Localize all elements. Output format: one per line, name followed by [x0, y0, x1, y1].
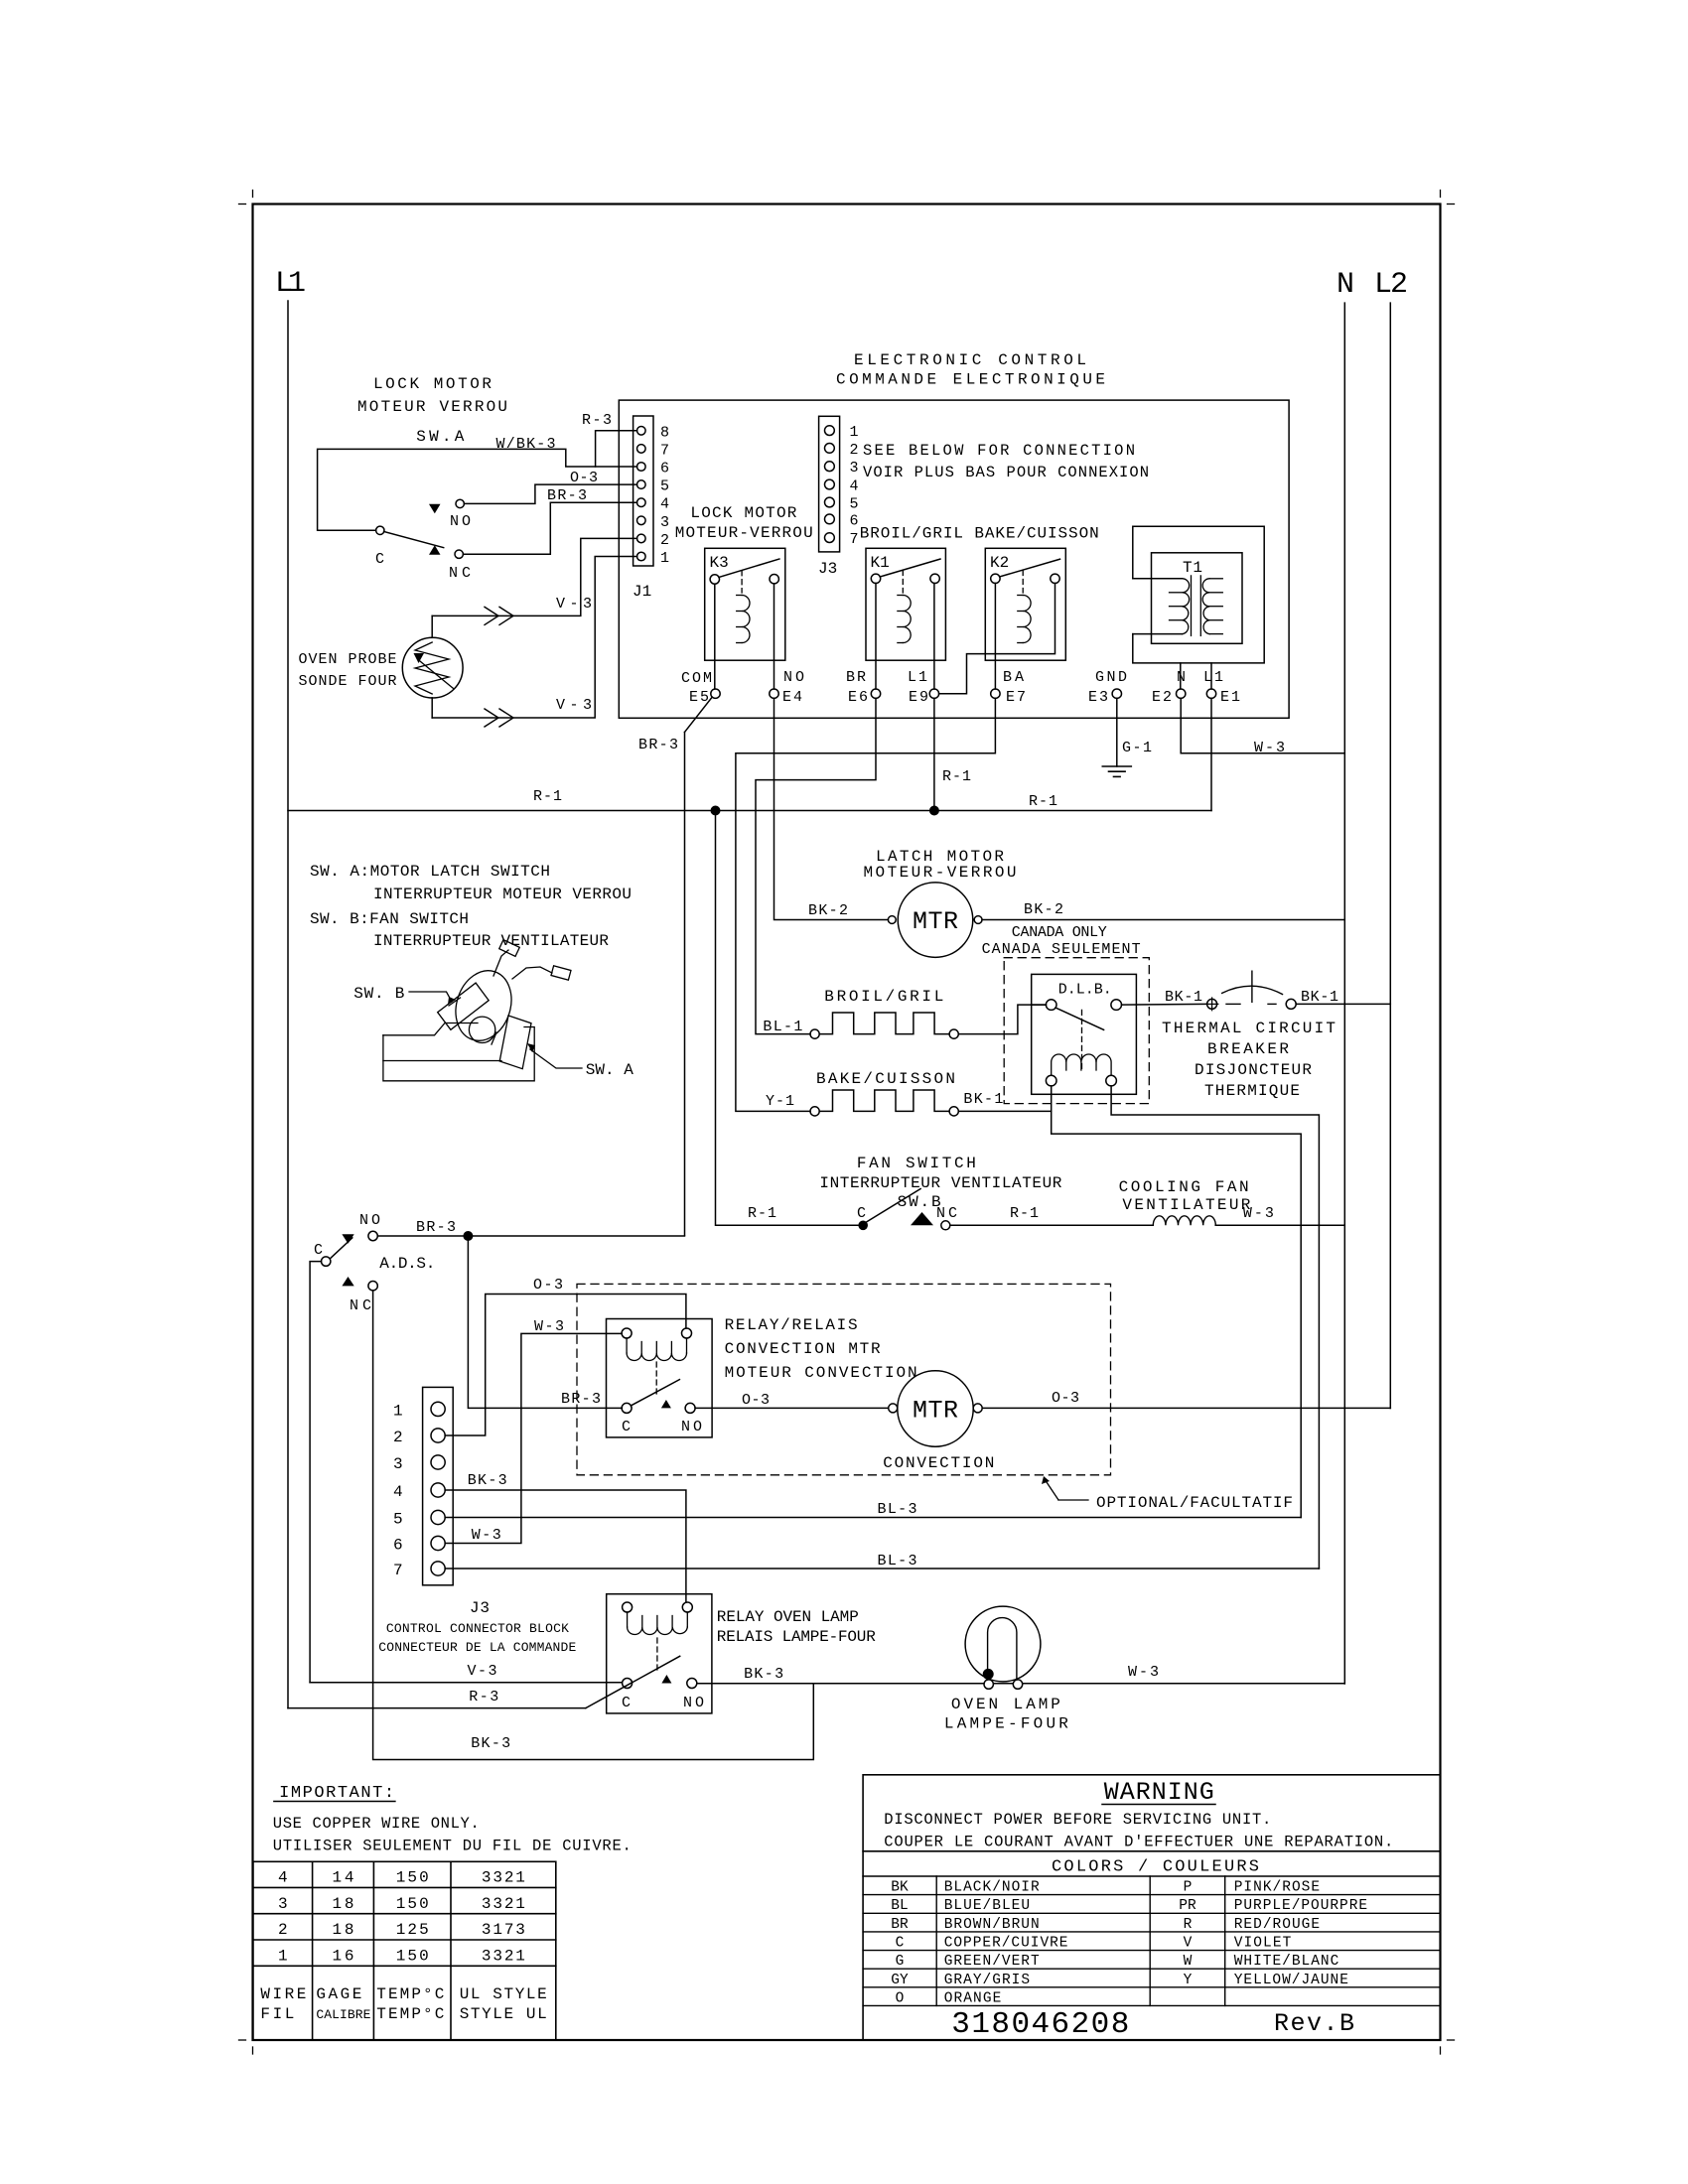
- svg-text:N: N: [1336, 268, 1354, 302]
- wire E1 to R-1 bus: [1210, 698, 1212, 810]
- svg-text:COOLING FAN: COOLING FAN: [1119, 1178, 1249, 1196]
- svg-text:W/BK-3: W/BK-3: [496, 436, 556, 453]
- relay K3: [705, 548, 785, 660]
- svg-text:L2: L2: [1374, 268, 1408, 302]
- svg-text:GREEN/VERT: GREEN/VERT: [944, 1954, 1040, 1970]
- oven lamp: [965, 1606, 1041, 1682]
- svg-text:GND: GND: [1095, 669, 1127, 686]
- svg-text:W: W: [1184, 1954, 1193, 1970]
- wire T1 to E1: [1210, 663, 1212, 689]
- wire W-3 from E2 to N rail: [1181, 698, 1344, 752]
- svg-text:CONNECTEUR DE LA COMMANDE: CONNECTEUR DE LA COMMANDE: [378, 1640, 576, 1655]
- svg-text:MOTEUR-VERROU: MOTEUR-VERROU: [675, 524, 813, 542]
- svg-text:N: N: [1177, 669, 1186, 686]
- svg-text:K3: K3: [710, 554, 729, 572]
- svg-text:THERMIQUE: THERMIQUE: [1204, 1082, 1300, 1100]
- wire R-1 bus from L1 rail: [288, 810, 1211, 812]
- svg-text:3173: 3173: [482, 1921, 525, 1939]
- svg-text:LOCK MOTOR: LOCK MOTOR: [690, 504, 796, 522]
- svg-text:BR-3: BR-3: [416, 1219, 456, 1236]
- svg-text:BK-1: BK-1: [963, 1091, 1003, 1108]
- svg-text:V-3: V-3: [556, 596, 592, 613]
- svg-text:Y-1: Y-1: [766, 1093, 794, 1110]
- svg-text:SW. A:MOTOR LATCH SWITCH: SW. A:MOTOR LATCH SWITCH: [310, 863, 550, 881]
- svg-text:BL: BL: [891, 1898, 908, 1914]
- svg-text:USE COPPER WIRE ONLY.: USE COPPER WIRE ONLY.: [273, 1815, 480, 1833]
- svg-text:BK-3: BK-3: [744, 1666, 783, 1683]
- svg-text:E4: E4: [782, 689, 802, 706]
- svg-text:1: 1: [393, 1402, 403, 1420]
- wire broil to D.L.B. left contact: [958, 1005, 1046, 1034]
- svg-text:GRAY/GRIS: GRAY/GRIS: [944, 1973, 1030, 1988]
- junction R-1/E9: [929, 806, 939, 816]
- wire W-3 oven lamp to N rail: [1023, 1683, 1345, 1685]
- svg-text:RELAIS LAMPE-FOUR: RELAIS LAMPE-FOUR: [717, 1628, 876, 1646]
- svg-text:Y: Y: [1184, 1973, 1193, 1988]
- svg-text:G-1: G-1: [1122, 740, 1152, 756]
- svg-text:STYLE UL: STYLE UL: [460, 2005, 547, 2023]
- svg-text:Rev.B: Rev.B: [1274, 2009, 1354, 2038]
- svg-text:2: 2: [660, 532, 669, 549]
- wire V-3 from oven probe to J1 pin 2: [432, 538, 636, 615]
- svg-text:V-3: V-3: [468, 1663, 497, 1680]
- connector J1: [633, 416, 653, 566]
- svg-text:W-3: W-3: [1243, 1205, 1274, 1222]
- svg-text:DISCONNECT POWER BEFORE SERVIC: DISCONNECT POWER BEFORE SERVICING UNIT.: [884, 1811, 1271, 1829]
- svg-text:SW. B:FAN SWITCH: SW. B:FAN SWITCH: [310, 910, 469, 928]
- svg-text:UL STYLE: UL STYLE: [460, 1985, 547, 2003]
- svg-text:CONVECTION MTR: CONVECTION MTR: [725, 1340, 881, 1358]
- transformer T1: [1152, 553, 1243, 644]
- wire V-3 A.D.S. C to lamp relay C: [310, 1682, 622, 1684]
- wire BR-3 from SW.A NC to J1 pin 4: [463, 502, 636, 554]
- svg-text:3: 3: [850, 460, 859, 477]
- svg-text:INTERRUPTEUR VENTILATEUR: INTERRUPTEUR VENTILATEUR: [373, 932, 609, 950]
- svg-text:150: 150: [396, 1895, 429, 1913]
- wire BL-3 J3 pin5 to D.L.B.: [445, 1517, 1301, 1519]
- relay K2: [985, 548, 1065, 660]
- svg-text:UTILISER SEULEMENT DU FIL DE C: UTILISER SEULEMENT DU FIL DE CUIVRE.: [273, 1838, 632, 1855]
- wire E9 jog to K2 right contact: [939, 584, 1055, 694]
- svg-text:3321: 3321: [482, 1869, 525, 1887]
- svg-text:BLACK/NOIR: BLACK/NOIR: [944, 1880, 1040, 1896]
- svg-text:8: 8: [660, 424, 669, 441]
- svg-text:COUPER LE COURANT AVANT D'EFFE: COUPER LE COURANT AVANT D'EFFECTUER UNE …: [884, 1834, 1393, 1851]
- wire E9 to R-1 bus: [933, 698, 935, 810]
- svg-text:THERMAL CIRCUIT: THERMAL CIRCUIT: [1162, 1020, 1336, 1037]
- wire W-3 cooling fan to N rail: [1215, 1224, 1344, 1226]
- wire O-3 J3 pin2 to convection relay coil: [445, 1295, 686, 1436]
- svg-text:3: 3: [278, 1895, 288, 1913]
- svg-text:BK-3: BK-3: [471, 1735, 510, 1752]
- wire D.L.B. left contact to broil: [1032, 1004, 1047, 1006]
- wire E6 BL-1 to broil element: [756, 698, 876, 1033]
- svg-text:BL-3: BL-3: [878, 1501, 917, 1518]
- ground symbol G-1: [1102, 765, 1131, 767]
- svg-text:7: 7: [660, 442, 669, 459]
- svg-text:4: 4: [393, 1483, 403, 1501]
- svg-text:T1: T1: [1183, 559, 1202, 577]
- wire K1 left contact to E6: [875, 584, 877, 690]
- switch assembly pictorial sketch: [383, 1024, 478, 1035]
- svg-text:IMPORTANT:: IMPORTANT:: [279, 1784, 394, 1803]
- svg-text:6: 6: [660, 461, 669, 478]
- wire BK-3 J3 pin4 to lamp relay coil: [445, 1490, 686, 1602]
- svg-text:BK-2: BK-2: [808, 902, 848, 919]
- terminal E1 L1: [1206, 689, 1215, 698]
- svg-text:318046208: 318046208: [951, 2007, 1129, 2042]
- svg-text:R-1: R-1: [942, 768, 971, 785]
- wire R-1 fan switch to cooling fan: [950, 1224, 1154, 1226]
- wire E3 to ground: [1116, 698, 1118, 766]
- svg-text:5: 5: [393, 1511, 403, 1529]
- convection motor MTR: [898, 1371, 973, 1446]
- thermal circuit breaker: [1207, 999, 1217, 1009]
- svg-text:4: 4: [850, 478, 859, 495]
- relay K1: [866, 548, 945, 660]
- wire BL-3 J3 pin7 to D.L.B.: [445, 1568, 1319, 1570]
- svg-text:MOTEUR CONVECTION: MOTEUR CONVECTION: [725, 1364, 917, 1382]
- svg-text:PINK/ROSE: PINK/ROSE: [1234, 1880, 1320, 1896]
- svg-text:3321: 3321: [482, 1948, 525, 1966]
- wire O-3 from SW.A NO to J1 pin 5: [464, 484, 636, 503]
- svg-text:7: 7: [393, 1562, 403, 1579]
- svg-text:COM: COM: [681, 670, 712, 687]
- svg-text:VIOLET: VIOLET: [1234, 1936, 1292, 1952]
- svg-text:R-1: R-1: [748, 1205, 776, 1222]
- wire BR-3 from E5 down to A.D.S. line: [685, 697, 713, 732]
- svg-text:O-3: O-3: [533, 1277, 563, 1294]
- wire BK-3 return to A.D.S. NC: [373, 1291, 814, 1760]
- connector J3 block: [423, 1387, 454, 1584]
- terminal E2 N: [1177, 689, 1186, 698]
- broil element: [810, 1029, 819, 1038]
- svg-text:OPTIONAL/FACULTATIF: OPTIONAL/FACULTATIF: [1096, 1494, 1293, 1512]
- svg-text:L1: L1: [275, 267, 306, 301]
- wire O-3 convection relay NO to MTR: [695, 1407, 889, 1409]
- svg-text:E7: E7: [1006, 689, 1026, 706]
- switch A.D.S. NC terminal: [342, 1277, 353, 1286]
- convection relay: [607, 1319, 713, 1437]
- svg-text:W-3: W-3: [1254, 740, 1285, 756]
- terminal E6 BR: [871, 689, 880, 698]
- terminal E9 L1: [929, 689, 938, 698]
- wire W/BK-3 from SW.A C to J1 pin 6: [318, 449, 637, 530]
- terminal E7 BA: [991, 689, 1000, 698]
- svg-text:J1: J1: [633, 583, 651, 601]
- svg-text:BK-2: BK-2: [1024, 901, 1063, 918]
- terminal E4 NO: [770, 689, 778, 698]
- svg-text:R-3: R-3: [582, 412, 612, 429]
- wire R-3 to J1 pin 8: [596, 431, 637, 467]
- svg-text:1: 1: [660, 550, 669, 567]
- svg-text:J3: J3: [818, 560, 837, 578]
- svg-text:L1: L1: [908, 669, 927, 686]
- svg-text:R-1: R-1: [1029, 793, 1057, 810]
- svg-text:BLUE/BLEU: BLUE/BLEU: [944, 1898, 1030, 1914]
- svg-text:PURPLE/POURPRE: PURPLE/POURPRE: [1234, 1898, 1367, 1914]
- svg-text:CONVECTION: CONVECTION: [883, 1454, 994, 1472]
- svg-text:DISJONCTEUR: DISJONCTEUR: [1195, 1061, 1312, 1079]
- svg-text:5: 5: [660, 478, 669, 495]
- junction BR-3: [463, 1231, 473, 1241]
- wire K2 left contact to E7: [994, 584, 996, 690]
- optional convection dashed box: [577, 1284, 1111, 1474]
- fan switch SW.B common: [858, 1221, 868, 1231]
- svg-text:C: C: [622, 1419, 631, 1435]
- wire BR-3 A.D.S. NO line: [377, 1235, 684, 1237]
- svg-text:6: 6: [850, 512, 859, 529]
- svg-text:W-3: W-3: [1128, 1664, 1159, 1681]
- svg-text:E6: E6: [848, 689, 868, 706]
- svg-text:3321: 3321: [482, 1895, 525, 1913]
- svg-text:W-3: W-3: [534, 1318, 564, 1335]
- wire N rail: [1343, 303, 1345, 1684]
- wire R-3 from L1 rail to lamp relay: [288, 1707, 586, 1709]
- svg-text:J3: J3: [470, 1599, 490, 1617]
- terminal E3 GND: [1112, 689, 1121, 698]
- svg-text:RELAY OVEN LAMP: RELAY OVEN LAMP: [717, 1608, 859, 1626]
- svg-text:VENTILATEUR: VENTILATEUR: [1122, 1196, 1250, 1214]
- svg-text:K2: K2: [990, 554, 1009, 572]
- svg-text:GY: GY: [891, 1973, 909, 1988]
- wire BK-3 lamp relay NO to oven lamp: [697, 1683, 984, 1685]
- switch A.D.S. blade: [330, 1238, 352, 1259]
- oven probe thermistor: [402, 637, 463, 698]
- fan switch NC terminal: [911, 1212, 933, 1225]
- cooling fan coil: [1153, 1216, 1215, 1226]
- wire K3 COM to E5: [714, 584, 716, 689]
- svg-text:OVEN PROBE: OVEN PROBE: [299, 651, 397, 668]
- svg-text:SW. A: SW. A: [586, 1061, 633, 1079]
- wire BK-2 latch motor to N rail: [982, 919, 1344, 921]
- svg-text:CANADA SEULEMENT: CANADA SEULEMENT: [982, 941, 1141, 958]
- svg-text:R: R: [1184, 1917, 1193, 1933]
- switch SW.A NO terminal: [456, 499, 464, 507]
- wire V-3 from oven probe to J1 pin 1: [432, 557, 636, 719]
- wire E7 BA to bake element: [736, 698, 996, 1111]
- connector J3 control board: [819, 416, 840, 552]
- wire K1 right contact to E9: [933, 584, 935, 690]
- svg-text:E5: E5: [689, 689, 709, 706]
- svg-text:G: G: [896, 1954, 905, 1970]
- wire L1 rail: [287, 301, 289, 1708]
- svg-text:WHITE/BLANC: WHITE/BLANC: [1234, 1954, 1339, 1970]
- svg-text:RED/ROUGE: RED/ROUGE: [1234, 1917, 1320, 1933]
- svg-text:SW. B: SW. B: [353, 985, 404, 1003]
- svg-text:4: 4: [278, 1869, 288, 1887]
- svg-text:CANADA ONLY: CANADA ONLY: [1012, 924, 1107, 941]
- wire BK-1 D.L.B. to thermal breaker: [1122, 1003, 1207, 1006]
- wire D.L.B. coil left to BL-3: [1052, 1086, 1302, 1518]
- svg-text:E9: E9: [909, 689, 928, 706]
- svg-text:BK-1: BK-1: [1301, 989, 1338, 1006]
- wire BR-3 to convection relay C: [468, 1236, 622, 1408]
- svg-text:C: C: [857, 1205, 866, 1222]
- svg-text:R-1: R-1: [533, 788, 562, 805]
- svg-text:L1: L1: [1203, 669, 1223, 686]
- svg-text:COLORS / COULEURS: COLORS / COULEURS: [1052, 1858, 1259, 1877]
- svg-text:O-3: O-3: [1052, 1390, 1079, 1407]
- wire O-3 convection MTR to L2 rail: [982, 1407, 1390, 1409]
- svg-text:BK-3: BK-3: [468, 1472, 507, 1489]
- svg-text:VOIR PLUS BAS POUR CONNEXION: VOIR PLUS BAS POUR CONNEXION: [863, 464, 1149, 481]
- svg-text:K1: K1: [871, 554, 890, 572]
- latch motor MTR: [898, 883, 973, 958]
- svg-text:BR: BR: [846, 669, 866, 686]
- svg-text:RELAY/RELAIS: RELAY/RELAIS: [725, 1316, 858, 1334]
- svg-text:MTR: MTR: [913, 907, 958, 936]
- svg-text:E3: E3: [1088, 689, 1108, 706]
- svg-text:BR: BR: [891, 1917, 909, 1933]
- svg-text:CALIBRE: CALIBRE: [316, 2007, 370, 2022]
- wire R-1 bus to fan switch C: [716, 811, 859, 1226]
- svg-text:1: 1: [850, 424, 859, 441]
- svg-text:V: V: [1184, 1936, 1193, 1952]
- svg-text:WARNING: WARNING: [1104, 1778, 1214, 1807]
- svg-text:PR: PR: [1179, 1898, 1196, 1914]
- svg-text:BR-3: BR-3: [638, 737, 678, 753]
- wire BK-1 breaker to L2 rail: [1296, 1003, 1390, 1005]
- bake element: [810, 1107, 819, 1116]
- svg-text:ORANGE: ORANGE: [944, 1990, 1002, 2006]
- svg-text:BL-1: BL-1: [763, 1019, 802, 1035]
- switch blade oven lamp relay with R-3 wire: [586, 1656, 680, 1707]
- svg-text:1: 1: [278, 1948, 288, 1966]
- svg-text:7: 7: [850, 531, 859, 548]
- wire gauge table: [253, 1861, 556, 2040]
- svg-text:BL-3: BL-3: [878, 1553, 917, 1570]
- wire bake BK-1 to D.L.B. coil: [958, 1110, 1051, 1112]
- svg-text:2: 2: [850, 442, 859, 459]
- switch A.D.S. NO terminal: [342, 1234, 353, 1244]
- connector chevrons on V-3 wires: [485, 607, 498, 624]
- svg-text:MTR: MTR: [913, 1397, 958, 1426]
- relay oven lamp: [607, 1594, 712, 1713]
- svg-text:O-3: O-3: [742, 1392, 770, 1409]
- svg-text:C: C: [314, 1242, 323, 1259]
- svg-text:INTERRUPTEUR MOTEUR VERROU: INTERRUPTEUR MOTEUR VERROU: [373, 886, 632, 903]
- svg-text:BK: BK: [891, 1880, 909, 1896]
- svg-text:BK-1: BK-1: [1165, 989, 1202, 1006]
- terminal E5 COM: [711, 689, 720, 698]
- wire L2 rail: [1389, 303, 1391, 1408]
- svg-text:O-3: O-3: [570, 470, 598, 486]
- svg-text:D.L.B.: D.L.B.: [1058, 982, 1112, 999]
- svg-text:INTERRUPTEUR VENTILATEUR: INTERRUPTEUR VENTILATEUR: [819, 1174, 1061, 1192]
- svg-text:150: 150: [396, 1948, 429, 1966]
- wire E4 to latch motor MTR: [774, 698, 889, 919]
- switch SW.A common terminal C: [376, 526, 384, 534]
- switch SW.A NC terminal: [455, 550, 463, 558]
- svg-text:150: 150: [396, 1869, 429, 1887]
- svg-text:V-3: V-3: [556, 697, 592, 714]
- svg-text:2: 2: [393, 1429, 403, 1446]
- svg-text:COPPER/CUIVRE: COPPER/CUIVRE: [944, 1936, 1068, 1952]
- svg-text:SW.B: SW.B: [898, 1193, 941, 1211]
- svg-text:4: 4: [660, 496, 669, 513]
- svg-text:R-1: R-1: [1010, 1205, 1039, 1222]
- electronic control box: [619, 400, 1289, 718]
- svg-text:YELLOW/JAUNE: YELLOW/JAUNE: [1234, 1973, 1348, 1988]
- svg-text:6: 6: [393, 1537, 403, 1555]
- svg-text:BROIL/GRIL BAKE/CUISSON: BROIL/GRIL BAKE/CUISSON: [860, 525, 1099, 543]
- svg-text:E2: E2: [1152, 689, 1172, 706]
- svg-text:FIL: FIL: [260, 2005, 294, 2023]
- svg-text:BROWN/BRUN: BROWN/BRUN: [944, 1917, 1040, 1933]
- svg-text:E1: E1: [1220, 689, 1240, 706]
- wire D.L.B. coil right to BL-3: [1111, 1086, 1319, 1569]
- svg-text:W-3: W-3: [472, 1527, 501, 1544]
- svg-text:3: 3: [393, 1455, 403, 1473]
- svg-text:SONDE FOUR: SONDE FOUR: [299, 673, 397, 690]
- svg-text:2: 2: [278, 1921, 288, 1939]
- fan switch blade: [867, 1189, 921, 1223]
- junction R-1/fan switch: [711, 806, 721, 816]
- svg-text:C: C: [896, 1936, 905, 1952]
- svg-text:C: C: [375, 551, 384, 568]
- svg-text:CONTROL CONNECTOR BLOCK: CONTROL CONNECTOR BLOCK: [386, 1621, 569, 1636]
- svg-text:P: P: [1184, 1880, 1193, 1896]
- svg-text:BR-3: BR-3: [547, 487, 587, 504]
- warning box: [863, 1775, 1440, 2040]
- drawing border frame: [253, 205, 1441, 2041]
- svg-text:BR-3: BR-3: [561, 1391, 601, 1408]
- svg-text:COMMANDE ELECTRONIQUE: COMMANDE ELECTRONIQUE: [836, 371, 1105, 389]
- svg-text:125: 125: [396, 1921, 429, 1939]
- svg-text:C: C: [622, 1695, 631, 1711]
- svg-text:OVEN LAMP: OVEN LAMP: [951, 1696, 1060, 1713]
- switch A.D.S. common: [322, 1257, 331, 1266]
- wire W-3 J3 pin6 to convection relay coil: [445, 1333, 622, 1543]
- switch SW.A blade: [384, 532, 444, 548]
- wire T1 to E2: [1180, 663, 1182, 689]
- svg-text:5: 5: [850, 496, 859, 513]
- svg-text:O: O: [896, 1990, 905, 2006]
- svg-text:R-3: R-3: [469, 1689, 498, 1706]
- relay D.L.B.: [1032, 974, 1137, 1094]
- svg-text:A.D.S.: A.D.S.: [379, 1255, 435, 1273]
- wire K3 NO to E4: [774, 584, 775, 689]
- svg-text:3: 3: [660, 514, 669, 531]
